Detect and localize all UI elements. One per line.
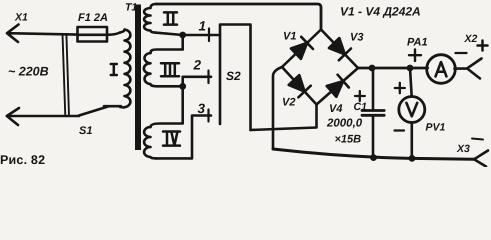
switch S2 contact 3 [207,110,209,122]
svg-text:X3: X3 [456,143,470,155]
svg-text:V4: V4 [329,103,342,115]
svg-text:×15В: ×15В [335,134,362,146]
wire winding III bottom to winding IV top [151,86,183,127]
node PV1 bottom junction [409,155,416,162]
svg-text:2000,0: 2000,0 [326,118,363,130]
wire S2 to bridge bottom [251,105,317,131]
diode V1 [291,43,307,59]
svg-text:S1: S1 [79,125,92,137]
label X2 plus [478,41,488,51]
wire bridge plus rail [358,67,428,70]
label X2 minus [456,52,467,54]
diode V4 [327,81,344,97]
svg-text:V1: V1 [283,31,296,43]
svg-text:V2: V2 [282,97,295,109]
winding II [144,4,156,33]
capacitor C1 [372,68,375,109]
wire bottom input with arrow [7,108,79,125]
wire top input with arrow [7,25,78,43]
label IV [163,132,180,146]
diode V3 [329,38,345,54]
wire cord double line [63,34,70,116]
winding IV [144,127,156,158]
diode V2 [289,75,305,91]
wire tap 2 [157,77,211,87]
svg-text:F1 2A: F1 2A [78,12,108,24]
wire winding II bottom to winding III top [151,35,183,53]
svg-text:V3: V3 [350,32,363,44]
transformer core [135,5,141,151]
wire tap 1 [155,33,220,35]
switch S2 contact 2 [207,71,209,84]
terminal X2 fork [467,59,482,79]
node tap1 junction [179,32,186,39]
svg-text:S2: S2 [226,69,241,83]
node C1 tap [369,65,376,72]
winding I (primary coil) [120,30,130,108]
svg-text:PA1: PA1 [407,37,428,49]
voltmeter PV1 [410,68,412,97]
wire tap 3 [156,116,211,159]
wire ammeter to X2 [455,67,468,70]
svg-text:C1: C1 [354,101,368,113]
wire bottom rail [273,149,474,159]
fuse F1 [78,27,108,42]
node PV1 tap [407,65,414,72]
svg-text:X2: X2 [464,33,478,45]
svg-text:X1: X1 [14,12,28,24]
switch S2 body [220,25,251,131]
node C1 bottom junction [370,154,377,161]
svg-text:PV1: PV1 [426,122,446,134]
switch S1 [79,106,121,115]
bridge diamond wires [282,30,358,105]
winding III [144,53,157,86]
label X3 minus [472,139,483,140]
svg-text:1: 1 [199,19,207,34]
switch S2 contact 1 [208,29,210,42]
label PV1 plus [395,83,405,93]
label II [164,12,177,24]
svg-text:2: 2 [193,58,202,73]
wire winding II top to bridge [156,4,321,30]
label III [161,63,179,76]
label I [111,64,117,75]
ammeter PA1 [427,55,456,84]
wire bridge minus to bottom rail [273,67,282,149]
label C1 plus [355,91,365,101]
node tap2 junction [179,83,186,90]
svg-text:3: 3 [198,101,206,116]
svg-text:Рис. 82: Рис. 82 [0,153,45,167]
terminal X3 fork [474,151,488,167]
svg-text:~ 220В: ~ 220В [8,65,49,79]
label PA1 plus [409,50,421,62]
label PV1 minus [395,129,405,131]
svg-text:V1 - V4 Д242А: V1 - V4 Д242А [340,5,421,19]
